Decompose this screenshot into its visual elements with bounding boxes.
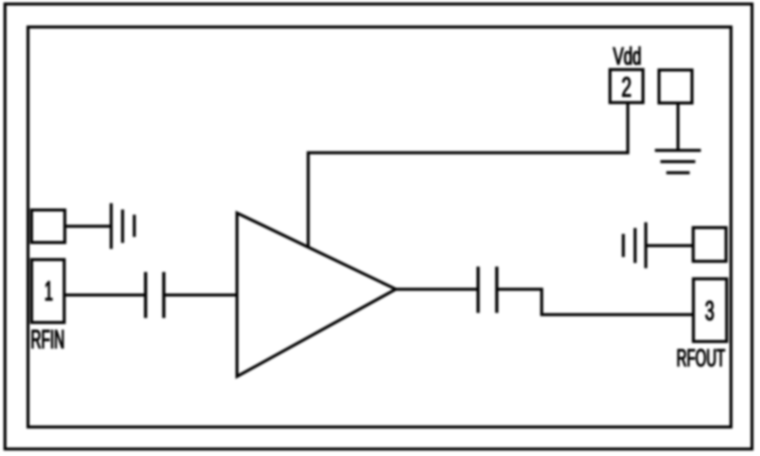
label Vdd (613, 47, 640, 65)
pin 2 box (610, 70, 643, 103)
wire: pad to ground (677, 103, 680, 150)
wire: C1 to amplifier input (164, 294, 237, 297)
wire: right pad to bypass ground (646, 244, 693, 247)
pin 3 box (693, 279, 726, 342)
capacitor C1 (input DC block) (146, 272, 164, 318)
label RFIN (32, 330, 64, 348)
label RFOUT (678, 349, 725, 366)
wire: Vdd feed to amplifier (308, 103, 628, 246)
pad left (32, 210, 65, 243)
ground (655, 150, 701, 172)
wire: C2 to pin 3 (497, 289, 694, 314)
ground (rotated) left (111, 203, 134, 249)
ground (rotated) right (623, 222, 646, 268)
wire: left pad to bypass ground (65, 225, 111, 228)
wire: pin 1 to C1 (64, 294, 145, 297)
pad top-right (659, 70, 692, 103)
pad right (693, 228, 726, 262)
amplifier A1 (237, 213, 396, 377)
pin 1 box (32, 260, 65, 323)
capacitor C2 (output DC block) (478, 267, 497, 313)
wire: amplifier output to C2 (396, 288, 478, 291)
